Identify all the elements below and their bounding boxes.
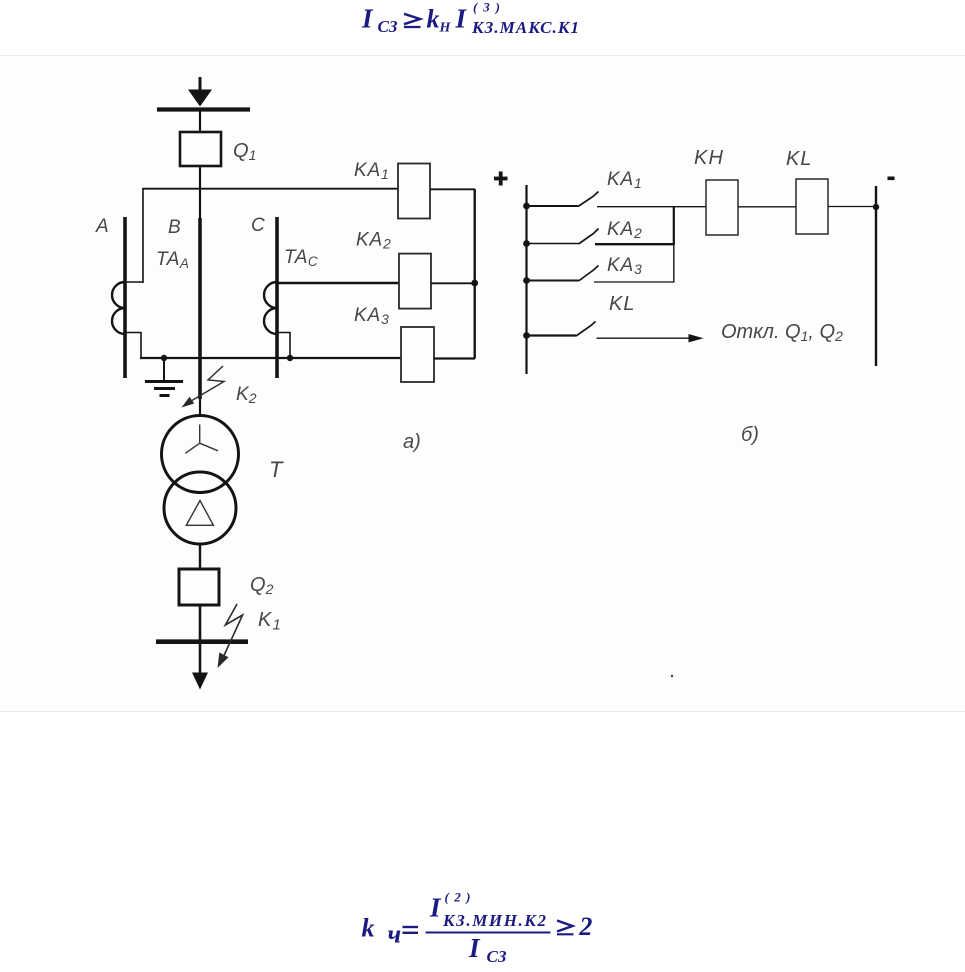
junction riser node	[471, 280, 478, 287]
fault arrow K2	[182, 366, 225, 408]
svg-text:T: T	[269, 457, 284, 482]
svg-text:2: 2	[578, 912, 592, 941]
TA_A bottom tap	[125, 333, 141, 359]
positive bus wire	[525, 185, 527, 374]
svg-text:(2): (2)	[445, 890, 471, 905]
TA_A top tap	[125, 281, 143, 283]
svg-text:I: I	[429, 893, 442, 923]
right riser wire	[474, 189, 476, 359]
junction TA_C node	[287, 355, 293, 361]
wire KH to KL	[738, 206, 796, 208]
svg-text:(3): (3)	[473, 0, 500, 15]
wire Q2 down	[199, 605, 202, 640]
node KL contact	[523, 332, 530, 339]
junction ground node	[161, 355, 167, 361]
node KA1 contact	[523, 203, 530, 210]
wire Q1 down	[199, 166, 201, 218]
plus terminal	[494, 172, 508, 186]
relay KH coil	[706, 180, 738, 235]
delta symbol	[186, 501, 213, 526]
negative bus wire	[875, 186, 877, 366]
breaker Q1	[180, 132, 221, 166]
wire KA3 to riser	[434, 357, 475, 359]
star symbol	[185, 425, 218, 454]
TA_C bottom tap	[277, 333, 290, 359]
svg-text:KH: KH	[694, 147, 724, 169]
node minus bus	[873, 204, 879, 210]
svg-text:СЗ: СЗ	[487, 947, 507, 966]
wire TA_A tap up to relay wire	[142, 188, 144, 283]
svg-text:KL: KL	[609, 293, 635, 315]
svg-text:а): а)	[403, 431, 421, 453]
svg-text:I: I	[468, 933, 481, 963]
svg-text:ч: ч	[388, 920, 402, 949]
wire B to transformer	[199, 399, 201, 416]
svg-text:C: C	[251, 215, 265, 236]
bottom secondary wire to KA3	[140, 357, 401, 359]
wire top secondary to KA1	[142, 188, 398, 190]
node KA2 contact	[523, 240, 530, 247]
svg-text:k: k	[362, 914, 375, 943]
ground symbol	[145, 358, 183, 396]
relay KA2 coil	[399, 254, 431, 309]
svg-text:Откл. Q1, Q2: Откл. Q1, Q2	[721, 321, 843, 344]
wire TA_C tap to KA2	[277, 282, 399, 284]
bottom bus bar	[156, 639, 248, 644]
bottom formula: k_ch = I(2)K3.MIN.K2 / I_C3 >= 2	[362, 890, 593, 967]
relay KA3 coil	[401, 327, 434, 382]
wire transformer to Q2	[199, 544, 201, 569]
feed arrow top	[188, 77, 212, 107]
wire KL to minus bus	[828, 206, 876, 208]
wire join KA2 KA3	[673, 207, 675, 245]
contact KL	[527, 322, 596, 337]
relay KA1 coil	[398, 164, 430, 219]
phase C bar	[275, 217, 279, 378]
svg-text:СЗ: СЗ	[378, 17, 398, 36]
phase A bar	[123, 217, 127, 378]
svg-text:KL: KL	[786, 148, 812, 170]
wire KA1 to right riser	[430, 188, 475, 190]
svg-text:КЗ.МИН.К2: КЗ.МИН.К2	[442, 911, 547, 930]
transformer T winding 2	[164, 472, 236, 544]
svg-text:I: I	[455, 4, 468, 34]
top bus bar	[157, 107, 250, 111]
diagram band background	[0, 56, 965, 712]
svg-text:Н: Н	[439, 21, 452, 36]
breaker Q2	[179, 569, 219, 605]
CT TA_C winding arcs	[264, 282, 277, 334]
svg-text:б): б)	[741, 424, 759, 446]
contact KA1	[527, 192, 707, 207]
bottom feed arrow	[192, 644, 208, 690]
svg-text:КЗ.МАКС.К1: КЗ.МАКС.К1	[471, 18, 579, 37]
phase B bar	[198, 218, 202, 399]
contact KA2	[527, 229, 675, 245]
fault arrow K1	[218, 604, 243, 668]
relay KL coil	[796, 179, 828, 234]
wire bus to Q1	[199, 111, 201, 132]
svg-text:B: B	[168, 217, 182, 238]
wire KA2 to riser	[431, 282, 475, 284]
contact KA3	[527, 266, 675, 283]
svg-text:k: k	[427, 5, 440, 34]
minus terminal	[888, 177, 895, 181]
CT TA_A winding arcs	[112, 282, 125, 334]
node KA3 contact	[523, 277, 530, 284]
top formula: I_C3 >= kH I(3)K3.MAKC.K1	[361, 0, 579, 37]
trip arrow	[597, 334, 704, 342]
stray dot	[671, 675, 673, 677]
svg-text:I: I	[361, 4, 374, 34]
transformer T winding 1	[162, 416, 239, 493]
svg-text:A: A	[95, 216, 109, 237]
